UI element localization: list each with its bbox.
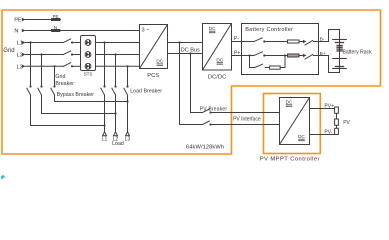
svg-text:3 ~: 3 ~ [142, 27, 150, 33]
svg-text:Battery Rack: Battery Rack [343, 49, 373, 55]
wire PV interface drop [180, 43, 203, 125]
svg-text:Load Breaker: Load Breaker [130, 88, 162, 94]
switch precharge [255, 64, 263, 67]
wire bypass L2 [41, 55, 43, 87]
decorative blue glyph [1, 175, 4, 179]
thyristor STS L2 [85, 52, 91, 58]
converter DC/DC [203, 24, 232, 71]
thyristor STS L1 [85, 40, 91, 46]
fuse PV 1 [335, 107, 339, 113]
wire B- path [242, 41, 255, 43]
svg-text:PV MPPT Controller: PV MPPT Controller [260, 157, 320, 163]
switch contactor B- 1 [254, 38, 262, 42]
fuse B- [288, 40, 300, 43]
svg-text:DC: DC [286, 100, 293, 105]
breaker PV top [203, 109, 210, 112]
PV MPPT enclosure (orange box) [264, 94, 321, 154]
svg-text:DC: DC [298, 134, 305, 139]
svg-text:64kW/128kWh: 64kW/128kWh [186, 145, 224, 151]
switch contactor B+ 2 [303, 54, 306, 57]
svg-text:PV-: PV- [324, 129, 332, 135]
PE terminal bar [51, 18, 60, 21]
thyristor STS L3 [85, 63, 91, 69]
junction tap L1 bypass [29, 41, 31, 43]
switch contactor B- 2 [303, 40, 306, 43]
svg-text:DC: DC [209, 26, 216, 31]
wire PV breaker drop [191, 54, 203, 113]
junction DC bus top [178, 41, 180, 43]
resistor precharge [270, 66, 281, 69]
wire P- [232, 41, 242, 43]
fuse B+ (gray) [288, 54, 300, 57]
breaker load L2 [114, 85, 116, 87]
junction tap L2 bypass [40, 53, 42, 55]
terminal load L2 [114, 132, 118, 136]
cell 1 [333, 39, 347, 41]
junction load tap L2 [114, 53, 116, 55]
junction load tap L3 [126, 65, 128, 67]
wire load L2 vertical [115, 55, 117, 87]
breaker grid L1 [64, 39, 71, 43]
battery rack chain [339, 30, 341, 73]
svg-text:Breaker: Breaker [55, 81, 74, 87]
cell 2 [333, 58, 347, 60]
wire L3 to grid breaker [26, 65, 64, 67]
switch STS box [81, 36, 96, 71]
terminal load L1 [103, 132, 107, 136]
wire PV- [310, 134, 337, 136]
svg-text:PV+: PV+ [324, 103, 334, 109]
svg-text:PV Interface: PV Interface [233, 116, 261, 122]
converter PV MPPT [280, 98, 310, 145]
breaker bypass L1 [29, 85, 31, 87]
cell 3 [336, 66, 344, 68]
N terminal bar [51, 29, 60, 32]
svg-text:Battery Controller: Battery Controller [245, 27, 293, 33]
svg-text:Load: Load [112, 141, 124, 147]
fuse PV 2 [335, 119, 339, 125]
wire B+ to battery rack [319, 56, 340, 73]
wire L1 STS to PCS [96, 42, 140, 44]
wire PV+ [310, 108, 337, 110]
wire N to PCS [26, 30, 140, 32]
svg-text:STS: STS [84, 71, 93, 76]
switch contactor B+ 1 [254, 52, 262, 56]
wire bypass L3 [54, 66, 56, 86]
svg-text:B-: B- [320, 37, 325, 42]
wire DC bus top [168, 42, 203, 44]
breaker bypass L2 [40, 85, 42, 87]
svg-text:PV: PV [343, 120, 350, 126]
breaker bypass L3 [53, 85, 55, 87]
breaker PV bottom [203, 121, 210, 124]
svg-text:L1: L1 [102, 137, 108, 143]
fuse PV 3 [335, 128, 339, 134]
svg-text:N: N [54, 25, 57, 30]
precharge branch [250, 56, 255, 68]
breaker grid L3 [64, 63, 71, 67]
wire load L3 vertical [127, 66, 129, 86]
svg-text:Bypass Breaker: Bypass Breaker [57, 92, 95, 98]
svg-text:DC: DC [216, 57, 223, 62]
wire PE [26, 19, 61, 21]
wire L1 to grid breaker [26, 42, 64, 44]
wire L3 STS to PCS [96, 65, 140, 67]
svg-text:PE: PE [14, 18, 22, 24]
breaker load L1 [103, 85, 105, 87]
svg-text:L3: L3 [125, 137, 131, 143]
junction tap L3 bypass [53, 65, 55, 67]
svg-text:Grid: Grid [55, 74, 65, 80]
junction DC bus bottom [189, 52, 191, 54]
junction load tap L1 [103, 41, 105, 43]
svg-text:PCS: PCS [147, 73, 159, 79]
breaker grid L2 [64, 51, 71, 55]
svg-text:DC Bus: DC Bus [181, 47, 200, 53]
wire PV string vertical [336, 109, 338, 135]
controller Battery Controller box [242, 24, 319, 75]
converter PCS [140, 25, 168, 69]
wire DC bus bottom [168, 53, 203, 55]
wire load L1 vertical [104, 43, 106, 87]
svg-text:PE: PE [53, 14, 59, 19]
svg-text:Grid: Grid [3, 48, 14, 54]
svg-text:DC: DC [156, 59, 163, 64]
svg-text:P-: P- [234, 36, 239, 42]
continuation stack [337, 45, 342, 47]
wire B- to battery rack [319, 30, 340, 42]
wire bypass L1 [30, 43, 32, 87]
svg-text:PV Breaker: PV Breaker [200, 106, 228, 112]
breaker load L3 [126, 85, 128, 87]
wire P+ [232, 55, 242, 57]
wire L2 to grid breaker [26, 54, 64, 56]
svg-text:P+: P+ [234, 50, 240, 56]
svg-text:N: N [14, 29, 18, 35]
wire B+ path [242, 55, 255, 57]
wire L2 STS to PCS [96, 54, 140, 56]
terminal load L3 [126, 132, 130, 136]
svg-text:DC/DC: DC/DC [208, 75, 226, 81]
main system enclosure (orange boundary) [2, 10, 381, 154]
